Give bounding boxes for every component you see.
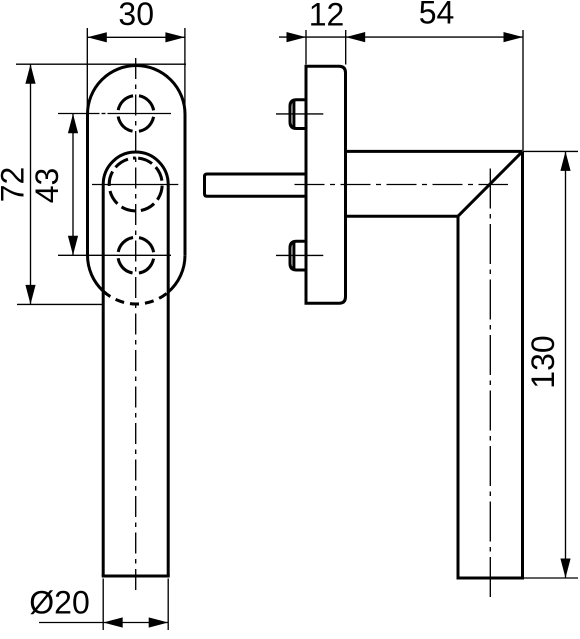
handle bottom edge side view xyxy=(457,577,525,580)
handle arm side view: top edge xyxy=(346,150,523,153)
rosette plate side view xyxy=(306,66,346,303)
handle arm bottom edge xyxy=(346,215,459,218)
svg-text:72: 72 xyxy=(0,167,31,203)
centerline vertical (grip axis side view) xyxy=(489,169,491,598)
dimension 30 xyxy=(86,28,88,111)
dimension 54 xyxy=(522,30,524,151)
handle vertical outer edge xyxy=(521,151,524,578)
svg-text:12: 12 xyxy=(309,0,345,33)
rosette bottom arc solid right xyxy=(168,255,185,292)
dimension diameter 20 xyxy=(102,579,104,631)
svg-text:Ø20: Ø20 xyxy=(29,584,89,620)
centerline vertical (front view axis) xyxy=(135,58,137,592)
rosette bottom arc hidden (dashed behind grip) xyxy=(103,291,168,304)
miter corner line xyxy=(458,151,523,216)
centerline spindle hole xyxy=(92,184,178,186)
screw hole top (hidden circle) xyxy=(118,96,154,132)
dimension 43 xyxy=(72,114,74,255)
centerline bottom hole xyxy=(58,254,171,256)
centerline top hole xyxy=(58,113,100,115)
grip bottom edge xyxy=(102,575,170,578)
centerline horizontal (spindle axis) xyxy=(295,184,509,186)
svg-text:130: 130 xyxy=(525,335,561,388)
screw top xyxy=(290,100,307,129)
spindle hole (hidden circle) xyxy=(109,158,162,211)
screw bottom xyxy=(290,241,307,270)
rosette bottom arc solid left xyxy=(88,255,104,291)
handle grip front view xyxy=(103,152,168,576)
rosette plate front (oval) xyxy=(88,66,186,256)
dimension 72 xyxy=(16,63,186,65)
svg-text:30: 30 xyxy=(118,0,154,32)
svg-text:54: 54 xyxy=(419,0,455,31)
handle vertical inner edge xyxy=(457,216,460,578)
dimension 130 xyxy=(523,150,578,152)
svg-text:43: 43 xyxy=(29,168,65,204)
spindle (square shaft) xyxy=(205,174,307,196)
screw hole bottom (hidden circle) xyxy=(118,237,154,273)
dimension 12 xyxy=(305,30,307,65)
